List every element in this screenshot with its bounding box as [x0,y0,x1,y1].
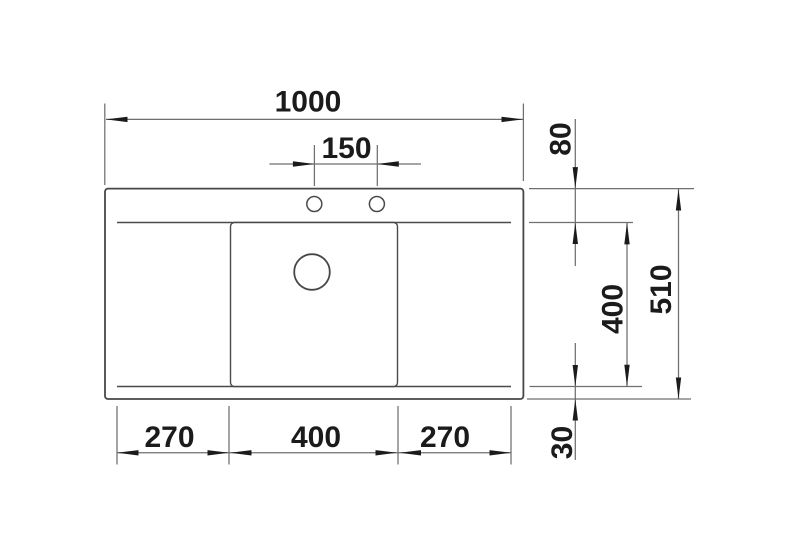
dimension 400 right line [626,223,628,386]
svg-text:270: 270 [420,421,470,454]
dimension 30 line [574,343,576,460]
svg-text:80: 80 [545,122,578,155]
right extension of rim top edge [529,188,694,190]
dimension 80 arrow bottom [573,223,578,245]
dimension 150 line [269,163,421,165]
svg-text:400: 400 [597,284,630,334]
sink outer rim [105,189,523,399]
dimension 150 arrow left [293,161,315,166]
dimension 80 arrow top [573,167,578,189]
bottom dims extension line x506 [510,406,512,465]
dimension 400 right arrow top [624,223,629,245]
dimension 270 right arrow right [490,450,512,455]
dimension 150 extension line right [376,145,378,186]
right extension of drainer bottom edge [530,386,643,388]
dimension 80 line [574,119,576,266]
dimension 400 bottom arrow left [230,450,252,455]
dimension 150 arrow right [377,161,399,166]
dimension 270 left arrow right [208,450,230,455]
svg-text:510: 510 [645,264,678,314]
drainer bottom edge line [117,386,511,388]
svg-text:30: 30 [546,426,579,459]
bottom dims extension line x229 [228,406,230,465]
dimension 510 arrow top [676,189,681,211]
dimension 1000 arrow right [502,117,524,122]
bottom dims extension line x398 [397,406,399,465]
svg-text:400: 400 [291,421,341,454]
bottom dimension line [117,452,511,454]
tap hole left [307,197,322,212]
svg-text:150: 150 [321,132,371,165]
dimension 400 right arrow bottom [624,365,629,387]
drainer top edge line [117,222,511,224]
svg-text:270: 270 [144,421,194,454]
dimension 400 bottom arrow right [376,450,398,455]
drain hole [294,254,330,290]
right extension of drainer top edge [529,222,633,224]
dimension 30 arrow top [573,365,578,387]
dimension 1000 line [106,118,523,120]
bowl [231,223,398,387]
bottom dims extension line x117 [116,406,118,465]
dimension 150 extension line left [313,145,315,186]
dimension 270 right arrow left [400,450,422,455]
dimension 1000 arrow left [106,117,128,122]
dimension 510 arrow bottom [676,378,681,400]
dimension 1000 extension line left [104,104,106,186]
dimension 1000 extension line right [522,104,524,182]
tap hole right [369,197,384,212]
right extension of rim bottom edge [527,398,691,400]
dimension 270 left arrow left [117,450,139,455]
svg-text:1000: 1000 [275,86,342,119]
dimension 30 arrow bottom [573,399,578,421]
dimension 510 line [678,189,680,399]
